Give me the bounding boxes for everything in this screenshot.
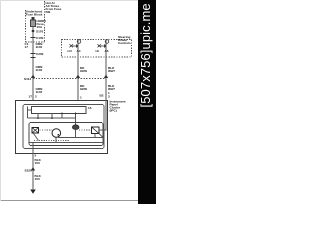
svg-text:150: 150 — [35, 161, 40, 165]
svg-text:1140: 1140 — [36, 45, 43, 49]
svg-text:1140: 1140 — [36, 68, 43, 72]
wire label — [80, 66, 88, 73]
internal wire (SW2 branch) — [99, 100, 106, 130]
junction dots — [37, 113, 76, 119]
dashed link — [79, 129, 91, 131]
connector C100 — [31, 37, 36, 39]
switch assembly label — [118, 35, 131, 45]
svg-text:B2: B2 — [100, 94, 104, 98]
svg-text:C100: C100 — [36, 36, 44, 40]
switch SW1 label — [68, 49, 81, 53]
wire label — [35, 174, 42, 181]
svg-text:150: 150 — [35, 177, 40, 181]
switch assembly (dashed box) — [62, 40, 132, 58]
wire label — [36, 87, 44, 94]
wire (SW2 to module) — [105, 57, 107, 100]
svg-text:Controls: Controls — [118, 41, 131, 45]
internal enclosure (rounded) — [23, 105, 104, 149]
svg-text:A6: A6 — [105, 49, 109, 53]
page border left — [0, 0, 2, 201]
svg-text:1: 1 — [80, 96, 82, 100]
pin 1 label — [80, 96, 82, 100]
watermark bar — [138, 0, 156, 204]
relay contact block — [92, 127, 100, 134]
wire label — [108, 84, 115, 91]
pin 2 label — [29, 95, 38, 99]
module box (instrument cluster) — [16, 101, 108, 154]
module label — [110, 100, 126, 113]
wire label BLK 150 — [35, 158, 42, 165]
svg-text:5: 5 — [35, 154, 37, 158]
svg-text:S176: S176 — [36, 30, 44, 34]
svg-text:HI: HI — [96, 49, 99, 53]
splice S1 — [32, 30, 35, 33]
wire (fuse output) — [32, 26, 34, 100]
internal ground wire — [32, 143, 34, 154]
svg-text:LO: LO — [68, 49, 73, 53]
switch SW2 — [98, 40, 109, 58]
wire label — [80, 84, 88, 91]
internal component group (rounded box) — [29, 123, 103, 146]
svg-text:A4: A4 — [77, 49, 81, 53]
splice S2 — [76, 75, 80, 79]
svg-text:Blk: Blk — [46, 10, 51, 14]
connector C3 — [31, 57, 36, 59]
buzzer M2 — [72, 125, 79, 130]
fuse block label — [26, 10, 43, 17]
dashed net between splices — [33, 78, 106, 80]
internal bus wires — [28, 107, 76, 126]
page border bottom — [0, 200, 138, 202]
fuse F1 value label — [37, 19, 47, 29]
fuse block (dashed box) — [26, 1, 45, 42]
pin label — [88, 106, 92, 110]
wire label — [108, 66, 115, 73]
svg-text:GRN: GRN — [80, 69, 88, 73]
svg-text:15A: 15A — [37, 25, 43, 29]
svg-text:2: 2 — [35, 95, 37, 99]
dashed link bottom — [34, 140, 70, 142]
svg-text:15: 15 — [88, 106, 92, 110]
pin 3 label — [100, 91, 111, 99]
wire (SW1 to module) — [77, 57, 79, 100]
dashed link — [40, 129, 53, 131]
ground G105 — [30, 190, 36, 194]
connector C2 — [31, 53, 36, 55]
switch SW2 label — [96, 49, 109, 53]
svg-text:3: 3 — [108, 95, 110, 99]
gauge motor M1 — [52, 129, 61, 138]
page border top — [0, 0, 138, 2]
svg-text:C200: C200 — [36, 52, 44, 56]
switch SW1 — [70, 40, 81, 58]
svg-text:S114: S114 — [24, 77, 31, 81]
svg-text:17: 17 — [29, 95, 33, 99]
wire label — [36, 65, 44, 72]
switch arm — [34, 134, 39, 141]
svg-text:Fuse Block: Fuse Block — [26, 13, 43, 17]
svg-text:1140: 1140 — [36, 90, 43, 94]
svg-text:(IPC): (IPC) — [110, 109, 117, 113]
fuse F1 — [31, 20, 36, 27]
svg-text:17: 17 — [25, 45, 29, 49]
svg-text:WHT: WHT — [108, 69, 115, 73]
pin 5 label — [35, 154, 37, 158]
wire (module to ground) — [32, 153, 34, 190]
internal logic block — [32, 107, 87, 114]
wire label ORN 1140 — [36, 42, 44, 49]
hot-at-all-times note — [46, 1, 62, 14]
splice S1 label — [36, 30, 44, 34]
wire (fuse feed) — [32, 17, 35, 20]
splice S4 — [31, 167, 35, 171]
resistor block — [32, 128, 39, 134]
splice S3 — [104, 75, 108, 79]
svg-text:[507x756]upic.me: [507x756]upic.me — [138, 3, 153, 107]
svg-text:GRN: GRN — [80, 87, 88, 91]
svg-text:S220: S220 — [25, 169, 33, 173]
splice S114 — [31, 75, 35, 79]
internal bottom bus — [29, 134, 103, 143]
